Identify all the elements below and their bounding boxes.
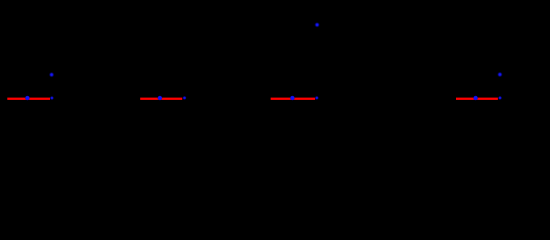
flying ball 3 (high above rod 3 tip, near apex) xyxy=(314,22,320,28)
rod 2 (red track, frame 2) xyxy=(140,98,182,100)
cart ball 2 (blue sphere on rod 2) xyxy=(157,96,162,101)
rod 1 (red track, frame 1) xyxy=(7,98,50,100)
cart ball 3 (blue sphere on rod 3) xyxy=(290,96,295,101)
tip dot 2 (right end of rod 2) xyxy=(182,96,186,100)
flying ball 4 (above rod 4 tip) xyxy=(497,72,503,78)
flying ball 1 (above rod 1 tip) xyxy=(49,72,55,78)
tip dot 3 (right end of rod 3) xyxy=(315,96,319,100)
rod 3 (red track, frame 3) xyxy=(271,98,315,100)
tip dot 1 (right end of rod 1) xyxy=(50,96,54,100)
cart ball 4 (blue sphere on rod 4) xyxy=(473,96,478,101)
cart ball 1 (blue sphere on rod 1) xyxy=(25,96,30,101)
rod 4 (red track, frame 4) xyxy=(456,98,498,100)
tip dot 4 (right end of rod 4) xyxy=(498,96,502,100)
